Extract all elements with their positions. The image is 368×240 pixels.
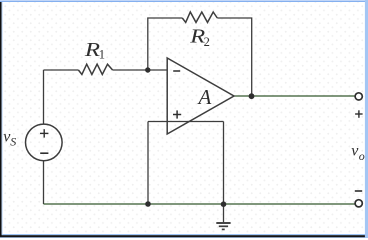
svg-text:S: S	[10, 134, 16, 148]
svg-text:1: 1	[99, 48, 105, 62]
svg-text:2: 2	[204, 35, 210, 49]
svg-text:A: A	[197, 85, 212, 109]
svg-text:o: o	[359, 149, 365, 163]
